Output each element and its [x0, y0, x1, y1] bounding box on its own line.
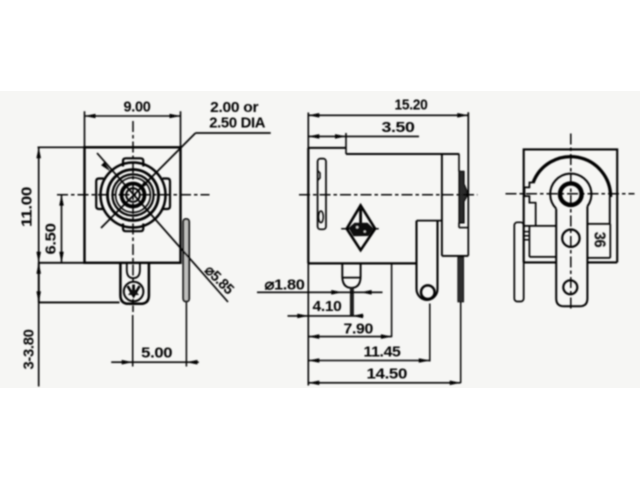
svg-text:5.00: 5.00	[141, 346, 172, 362]
rear vertical centerline	[570, 134, 572, 312]
arrow leader B	[138, 181, 147, 190]
left edge / extension line	[307, 113, 309, 386]
rear gray pin	[458, 257, 464, 302]
diamond vertical bar	[359, 209, 362, 228]
ring 4	[116, 178, 151, 213]
left inner bottom	[529, 256, 556, 258]
strip bottom hole	[563, 280, 577, 294]
dim 1.80 arrows	[331, 290, 371, 295]
dim 5.00 arrows	[122, 360, 198, 365]
dim 5.00 ext lines	[133, 303, 187, 367]
center hole thick ring	[560, 183, 582, 205]
diamond dark center	[349, 223, 374, 237]
rear horizontal centerline	[506, 193, 635, 195]
top-left edge	[308, 147, 346, 149]
ring 3	[112, 174, 153, 215]
7.90 ext line	[391, 264, 393, 337]
dim 3.50 arrows	[308, 134, 346, 139]
tab inner slot	[319, 211, 324, 223]
left edge body segment	[307, 148, 309, 264]
diamond symbol	[347, 205, 375, 250]
north tab	[123, 158, 143, 166]
leader B underline	[196, 132, 271, 134]
svg-text:3-3.80: 3-3.80	[22, 329, 38, 369]
step to right edge	[459, 227, 468, 229]
tab notch marks	[318, 171, 320, 181]
svg-text:2.00 or: 2.00 or	[210, 100, 259, 116]
horizontal centerline	[299, 194, 478, 196]
rear bottom edge	[442, 255, 468, 257]
dim 11.45 arrows	[308, 358, 430, 363]
strip rounded bottom	[556, 299, 587, 307]
pin chord	[342, 277, 360, 279]
right edge / 15.20 extension	[467, 112, 469, 256]
flange left edge	[38, 263, 40, 303]
ring 2	[108, 170, 159, 221]
flange bottom	[39, 301, 120, 303]
dim 7.90 line	[308, 336, 392, 338]
pin claw circle	[124, 282, 144, 302]
body top edge extension to 11.00 dim line	[38, 146, 85, 148]
right inner vertical	[609, 224, 611, 258]
svg-text:11.45: 11.45	[364, 345, 401, 361]
svg-text:3.50: 3.50	[382, 120, 415, 136]
11.45 ext line	[429, 304, 431, 362]
horizontal centerline	[57, 194, 210, 196]
svg-text:11.00: 11.00	[20, 187, 36, 227]
dome arc	[533, 157, 611, 197]
boss circle arc	[550, 174, 591, 209]
dim 6.50 line	[61, 195, 63, 263]
center pin hole circle	[126, 188, 140, 202]
dim 11.00 arrows	[36, 147, 41, 262]
claw marks	[128, 285, 140, 297]
svg-text:2.50 DIA: 2.50 DIA	[209, 116, 266, 132]
west tab	[96, 179, 104, 210]
left dome wall	[535, 203, 537, 226]
dim 9.00 arrows	[85, 114, 181, 119]
left side pin bracket	[514, 222, 523, 301]
dim 11.00 / 3-3.80 line	[38, 147, 40, 386]
right inner bottom	[587, 257, 610, 259]
middle terminal slot top	[417, 220, 442, 222]
dim 5.00 line	[111, 361, 199, 363]
14.50 ext line	[460, 302, 462, 383]
arrow leader A	[101, 162, 110, 171]
step and 3.50 ext	[345, 133, 347, 154]
barrel outer circle	[101, 163, 166, 228]
middle terminal hole	[421, 285, 435, 299]
dim 4.10 arrows	[297, 314, 363, 319]
middle terminal outline	[417, 221, 438, 300]
dim 7.90 arrows	[308, 334, 392, 339]
dim 6.50 arrows	[59, 195, 64, 263]
square body	[524, 149, 618, 262]
svg-text:⌀1.80: ⌀1.80	[265, 277, 305, 293]
svg-text:4.10: 4.10	[313, 299, 342, 315]
svg-text:7.90: 7.90	[344, 322, 374, 338]
main bottom edge	[308, 262, 416, 264]
right side pin bar (front view)	[183, 219, 189, 302]
diag leader line A (phi 5.85)	[97, 153, 228, 302]
left key notch	[525, 183, 537, 203]
right band top	[587, 223, 609, 225]
svg-text:6.50: 6.50	[44, 223, 60, 254]
svg-text:15.20: 15.20	[395, 98, 428, 114]
front pin (side view)	[342, 264, 360, 278]
dim 15.20 arrows	[308, 113, 468, 118]
inner vertical right	[458, 154, 460, 228]
dim 14.50 line	[308, 382, 460, 384]
east tab	[163, 179, 171, 210]
right dome wall	[609, 197, 611, 224]
dim 11.45 line	[308, 360, 430, 362]
dim 14.50 arrows	[308, 381, 460, 386]
dim 9.00 extension lines	[85, 111, 181, 146]
rear gray tab	[459, 171, 467, 223]
pin cup arc	[342, 278, 360, 288]
pin stem lead	[350, 288, 354, 316]
left inner vertical	[528, 226, 530, 257]
dim 3.50 line	[308, 135, 419, 137]
diag leader line B (2.00/2.50 DIA)	[101, 133, 196, 228]
terminal strip sides	[556, 206, 587, 298]
left snap tab outline	[318, 159, 326, 230]
pin inner U	[127, 263, 140, 278]
strip middle hole	[562, 230, 579, 247]
center pin housing (front)	[120, 263, 148, 304]
serration marks	[524, 232, 529, 240]
vertical centerline	[132, 121, 134, 312]
south tab	[123, 224, 143, 232]
dim 3-3.80 arrows	[36, 263, 41, 303]
svg-text:9.00: 9.00	[124, 100, 151, 116]
diamond horizontal line	[341, 228, 379, 230]
flange top edge	[39, 262, 85, 264]
dim 9.00 line	[85, 115, 181, 117]
svg-text:36: 36	[591, 232, 608, 248]
ring 5	[122, 184, 145, 207]
interior back wall	[441, 154, 443, 256]
dim 15.20 line	[308, 114, 468, 116]
svg-text:14.50: 14.50	[367, 367, 408, 383]
main top edge	[346, 153, 459, 155]
body square	[85, 147, 181, 262]
dim 4.10 line	[288, 315, 364, 317]
left band top	[524, 225, 557, 227]
dim 1.80 line	[257, 291, 383, 293]
